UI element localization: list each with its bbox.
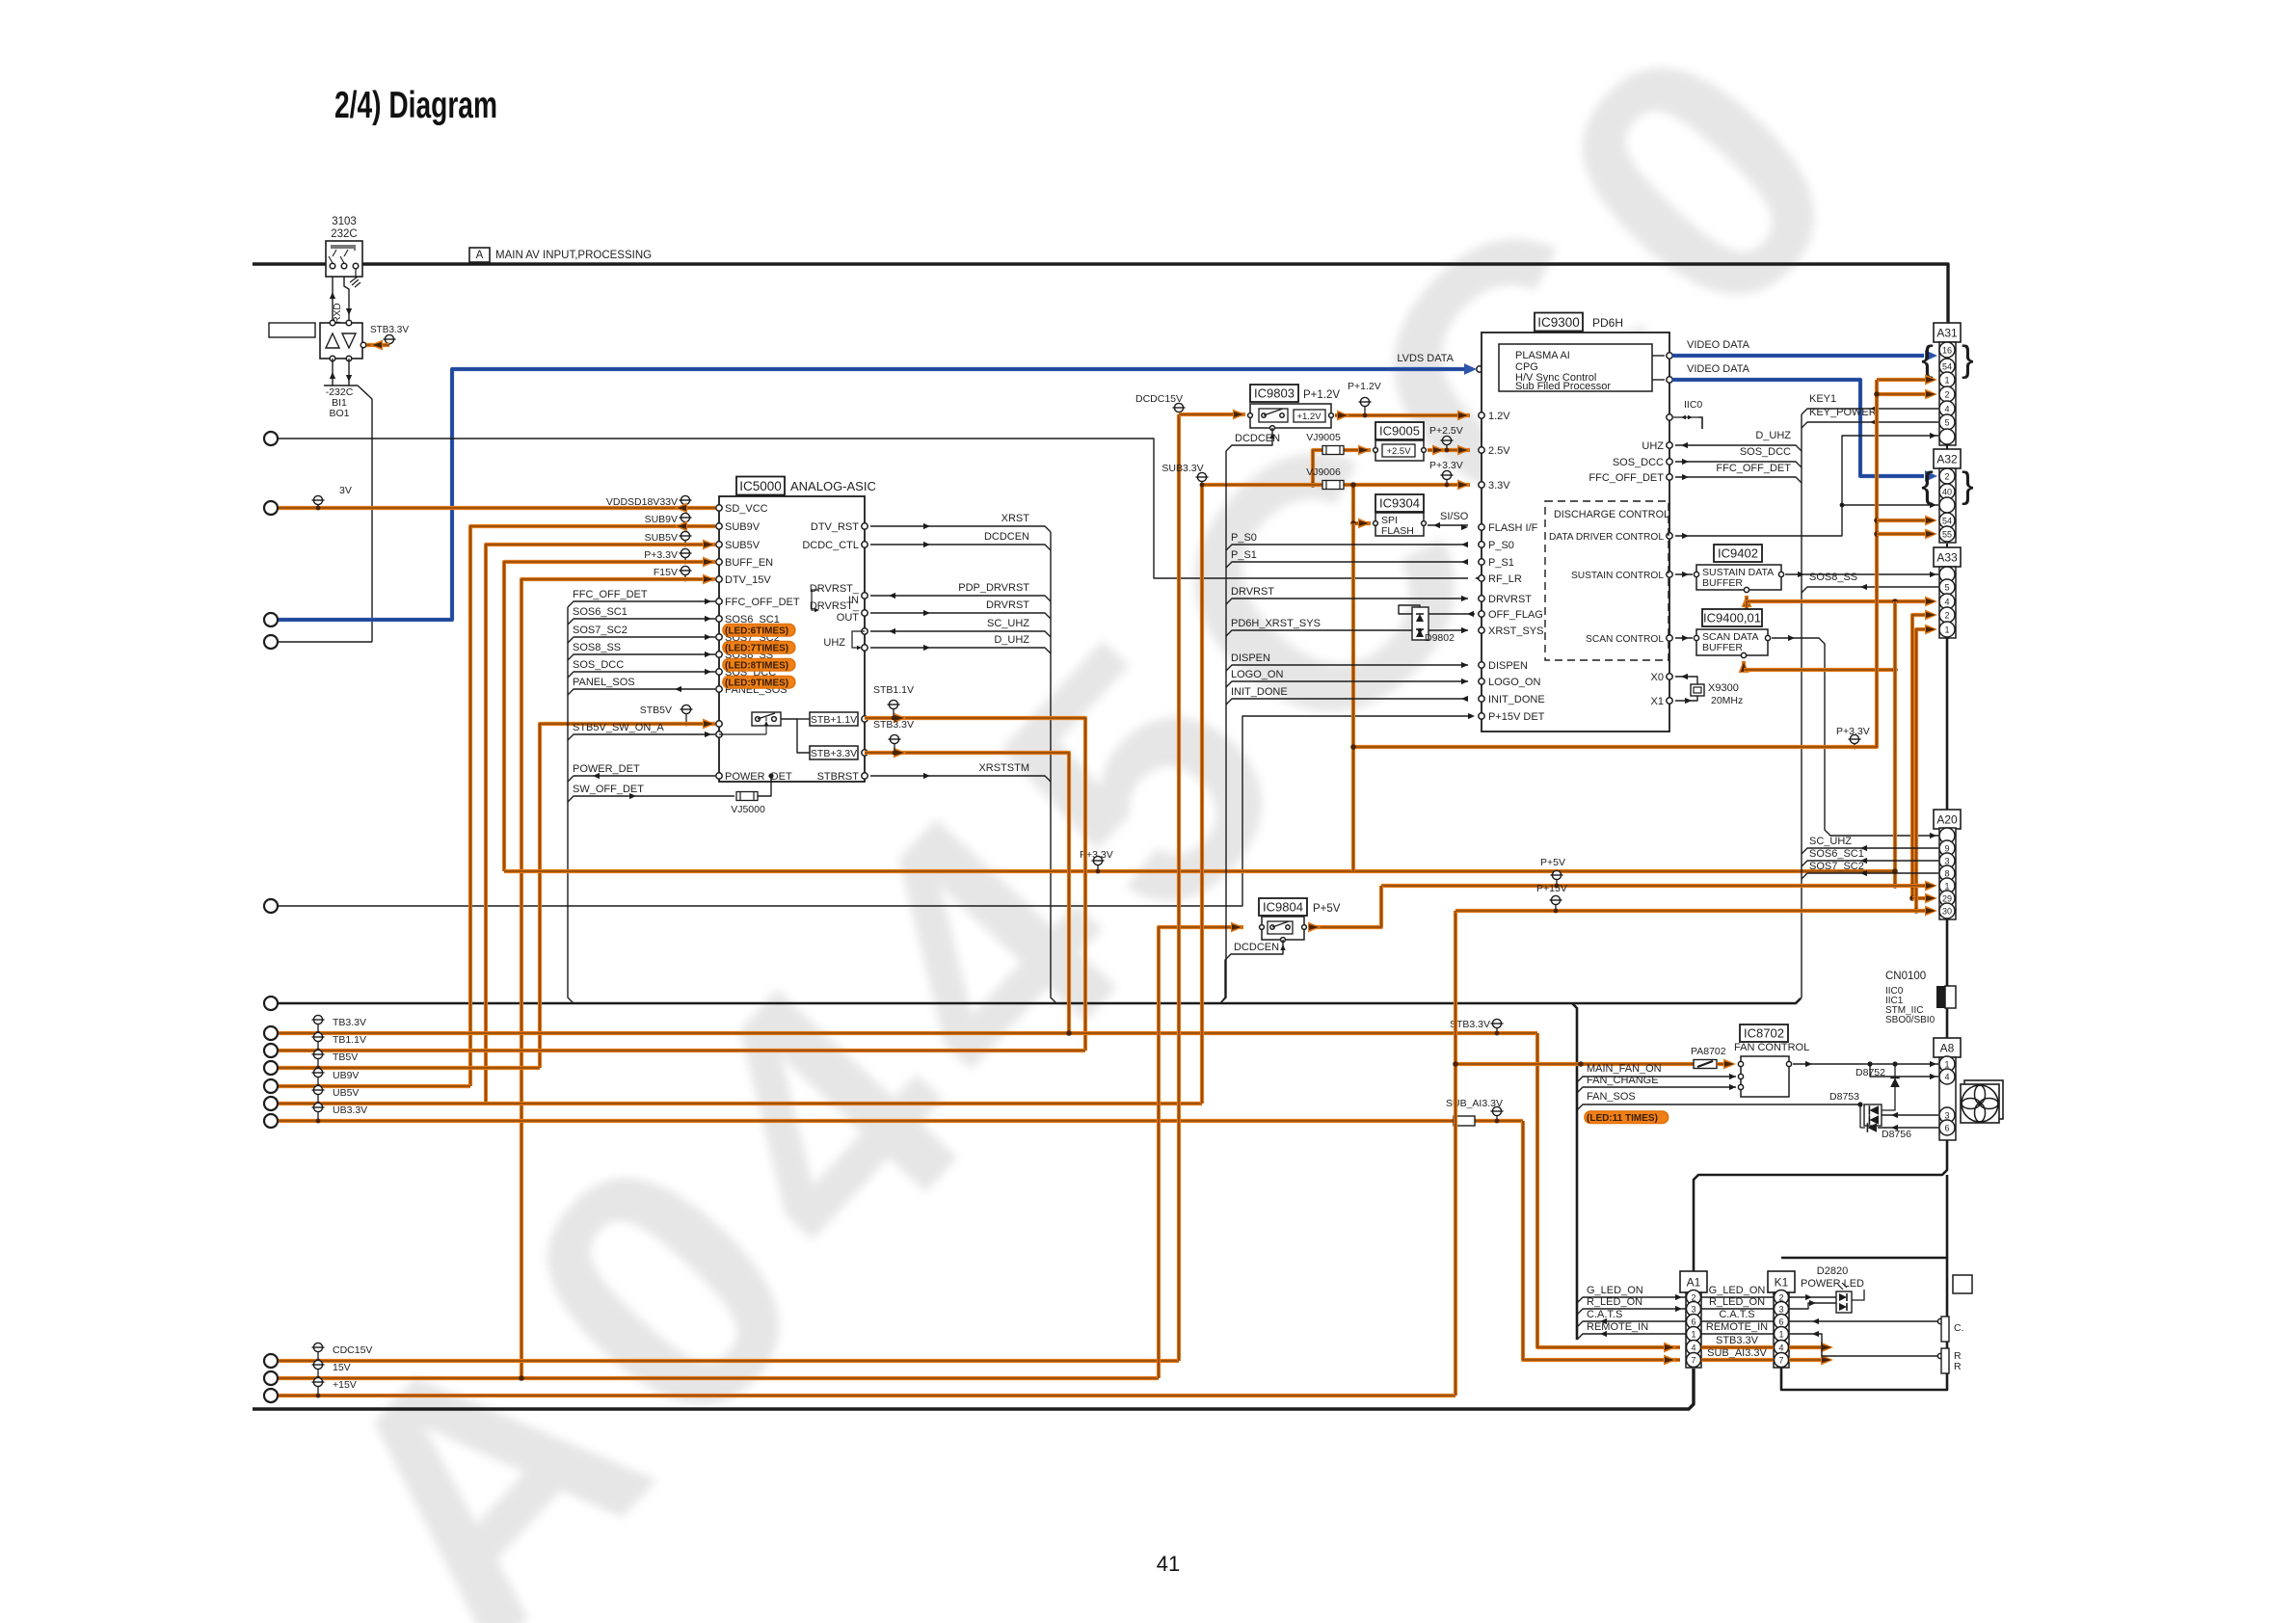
wire LOGO_ON <box>1226 681 1468 687</box>
wire SOS6_SC1 <box>568 619 715 625</box>
IC9300 pin P_S0 <box>1479 542 1484 547</box>
A20 pin 1 <box>1939 878 1955 893</box>
wire DRVRST <box>870 613 1051 619</box>
svg-text:STB3.3V: STB3.3V <box>370 325 409 335</box>
svg-text:3: 3 <box>1691 1305 1695 1315</box>
svg-text:5: 5 <box>1944 418 1949 428</box>
terminal y=1430 <box>264 1371 278 1385</box>
svg-text:1.2V: 1.2V <box>1488 411 1510 422</box>
svg-text:VJ5000: VJ5000 <box>731 804 765 815</box>
svg-text:30: 30 <box>1942 907 1952 917</box>
svg-text:PLASMA AI: PLASMA AI <box>1515 350 1570 361</box>
A8 pin 6 <box>1939 1120 1955 1135</box>
svg-text:(LED:11 TIMES): (LED:11 TIMES) <box>1587 1113 1658 1124</box>
A32 pin 40 <box>1939 484 1955 499</box>
resistor C. <box>1789 1320 1937 1322</box>
terminal y=1412 <box>264 1354 278 1368</box>
IC9300 pin LOGO_ON <box>1479 678 1484 684</box>
wire orange into A32 55 <box>1877 532 1925 536</box>
wire SOS_DCC <box>568 672 715 678</box>
wire DATA DRIVER CONTROL to A31/A32 nc pins <box>1675 436 1938 536</box>
wire RF_LR from terminal <box>279 439 1468 578</box>
wire A8 to A1 link <box>1694 1140 1947 1271</box>
svg-text:6: 6 <box>1944 1124 1949 1133</box>
wire A8 pin3 <box>1882 1114 1938 1116</box>
wire sustain out to A33 <box>1785 573 1938 575</box>
terminal y=1448 <box>264 1389 278 1402</box>
IC5000 pin STB5V <box>716 721 722 727</box>
svg-text:5: 5 <box>1944 583 1949 593</box>
svg-text:SOS_DCC: SOS_DCC <box>1613 457 1664 468</box>
svg-text:A1: A1 <box>1687 1276 1701 1290</box>
wire BUFF_EN <box>504 562 715 871</box>
svg-text:X9300: X9300 <box>1708 682 1739 694</box>
svg-text:UHZ: UHZ <box>823 637 845 649</box>
wire STB5V <box>540 724 715 1068</box>
svg-text:7: 7 <box>1778 1356 1783 1366</box>
svg-text:}: } <box>1962 339 1974 380</box>
svg-text:DISCHARGE CONTROL: DISCHARGE CONTROL <box>1554 509 1669 520</box>
svg-text:UB9V: UB9V <box>333 1070 359 1081</box>
svg-text:DTV_15V: DTV_15V <box>725 574 771 586</box>
IC5000 pin BUFF_EN <box>716 559 722 565</box>
A33 pin 4 <box>1939 594 1955 609</box>
svg-text:D_UHZ: D_UHZ <box>1755 430 1791 441</box>
svg-text:D2820: D2820 <box>1817 1265 1848 1277</box>
svg-text:P+1.2V: P+1.2V <box>1303 389 1340 401</box>
wire XRSTSTM <box>870 776 1051 782</box>
diode D9802 <box>1399 605 1475 614</box>
wire STB5V_SW_ON_A <box>568 734 715 740</box>
A1 pin 7 <box>1687 1353 1701 1368</box>
svg-text:SC_UHZ: SC_UHZ <box>1809 836 1852 847</box>
svg-text:BUFFER: BUFFER <box>1702 642 1743 653</box>
wire orange into A32 54 <box>1877 519 1925 522</box>
wire XRST_SYS <box>1461 627 1468 633</box>
K1 pin 4 <box>1775 1341 1789 1355</box>
IC5000 right pin y=672 <box>862 645 868 651</box>
wire SOS6_SC1 <box>1802 861 1938 866</box>
A1 pin 4 <box>1687 1341 1701 1355</box>
empty label box <box>269 323 315 337</box>
A33 pin nc <box>1939 567 1955 582</box>
wire D_UHZ <box>870 648 1051 653</box>
regulator IC9803 <box>1250 385 1298 402</box>
wire MAIN_FAN_ON <box>1577 1077 1736 1082</box>
svg-text:SOS8_SS: SOS8_SS <box>1809 572 1857 583</box>
IC9300 pin P+15V DET <box>1479 713 1484 719</box>
wire SOS7_SC2 <box>568 637 715 643</box>
wire DCDCEN <box>870 545 1051 550</box>
svg-text:DRVRST: DRVRST <box>1231 586 1274 598</box>
wire SOS7_SC2 <box>1802 873 1938 879</box>
svg-text:SUB5V: SUB5V <box>725 540 761 551</box>
svg-text:R: R <box>1954 1361 1962 1372</box>
terminal y=940 <box>264 899 278 913</box>
svg-text:DCDCEN: DCDCEN <box>1235 433 1280 444</box>
svg-text:PA8702: PA8702 <box>1691 1046 1726 1057</box>
svg-text:REMOTE_IN: REMOTE_IN <box>1587 1321 1648 1333</box>
svg-text:SOS7_SC2: SOS7_SC2 <box>573 625 627 636</box>
fan symbol <box>1964 1080 2003 1119</box>
svg-text:FAN_SOS: FAN_SOS <box>1587 1091 1636 1103</box>
svg-text:IC9304: IC9304 <box>1379 496 1420 511</box>
svg-text:DCDCEN: DCDCEN <box>984 531 1029 543</box>
svg-text:A33: A33 <box>1936 551 1958 565</box>
svg-text:D_UHZ: D_UHZ <box>994 634 1029 646</box>
svg-text:STB5V: STB5V <box>640 705 672 716</box>
wire DCDC15V to IC9803 <box>1179 412 1245 416</box>
IC5000 pin SUB5V <box>716 542 722 547</box>
svg-text:DCDCEN: DCDCEN <box>1234 942 1279 953</box>
wire mid board boundary <box>271 998 1801 1003</box>
wire buffer outputs down <box>332 359 334 386</box>
terminal y=455 <box>264 432 278 445</box>
svg-text:SUSTAIN CONTROL: SUSTAIN CONTROL <box>1571 571 1664 581</box>
A32 pin 55 <box>1939 526 1955 542</box>
wire 3.3V row <box>1202 483 1470 487</box>
wire SC_UHZ <box>870 631 1051 637</box>
wire K1 pin3 to LED <box>1789 1303 1836 1309</box>
wire KEY1 <box>1802 409 1938 414</box>
wire board branch down to A1 bundle <box>1572 1003 1577 1340</box>
svg-text:6: 6 <box>1691 1317 1695 1327</box>
wire XRST <box>870 526 1051 532</box>
svg-text:CDC15V: CDC15V <box>333 1344 372 1356</box>
IC9300 pin FLASH I/F <box>1479 524 1484 530</box>
wire 15V riser to IC9804 feed <box>1159 927 1243 1378</box>
IC5000 right pin y=655 <box>862 628 868 634</box>
wire bottom bus <box>253 1369 1694 1409</box>
wire INIT_DONE <box>1226 699 1468 705</box>
wire K1 out orange 7 <box>1789 1358 1822 1362</box>
A31 pin 1 <box>1939 372 1955 387</box>
svg-text:FLASH I/F: FLASH I/F <box>1488 522 1538 534</box>
wire FAN_SOS <box>1577 1104 1860 1110</box>
wire P+3.3V rail <box>504 869 1895 873</box>
flash IC9304 <box>1375 494 1424 512</box>
A20 pin 8 <box>1939 865 1955 881</box>
svg-text:3V: 3V <box>339 485 352 496</box>
wire connector links <box>1946 445 1948 449</box>
A1 pin 6 <box>1687 1315 1701 1329</box>
svg-text:DRVRST: DRVRST <box>986 599 1029 611</box>
PLASMA AI sub block <box>1499 344 1652 391</box>
IC5000 pin SOS7_SC2 <box>716 634 722 640</box>
K1 pin 3 <box>1775 1302 1789 1317</box>
svg-text:SOS_DCC: SOS_DCC <box>573 659 624 671</box>
svg-text:3: 3 <box>1778 1305 1783 1315</box>
wire K1 out orange 4 <box>1789 1345 1822 1349</box>
svg-text:P+5V: P+5V <box>1540 857 1565 868</box>
wire P+15V to fan area <box>1455 1062 1694 1066</box>
svg-text:1: 1 <box>1944 376 1949 386</box>
terminal y=1127 <box>264 1079 278 1093</box>
wire 232C down-left <box>332 277 334 323</box>
wire +15V row <box>279 1394 1455 1397</box>
svg-text:X1: X1 <box>1651 696 1664 707</box>
svg-text:A32: A32 <box>1936 453 1958 466</box>
svg-text:+1.2V: +1.2V <box>1296 412 1322 422</box>
A31 pin nc <box>1939 429 1955 444</box>
svg-text:DATA DRIVER CONTROL: DATA DRIVER CONTROL <box>1549 532 1664 543</box>
svg-text:DRVRST_: DRVRST_ <box>810 583 860 595</box>
wire UB3.3V riser to SUB_AI3.3V <box>1523 1121 1680 1360</box>
svg-text:UHZ: UHZ <box>1642 440 1664 452</box>
svg-text:P_S0: P_S0 <box>1231 532 1257 544</box>
wire orange into A20 pin29 <box>1912 896 1925 900</box>
node A MAIN AV INPUT,PROCESSING <box>469 248 490 262</box>
svg-text:IC5000: IC5000 <box>739 479 782 493</box>
svg-text:IC9005: IC9005 <box>1379 424 1420 439</box>
IC9300 pin 2.5V <box>1479 447 1484 453</box>
svg-text:R_LED_ON: R_LED_ON <box>1709 1296 1765 1308</box>
svg-text:FFC_OFF_DET: FFC_OFF_DET <box>1716 463 1791 474</box>
terminal y=666 <box>264 635 278 649</box>
wire REMOTE_IN A1-K1 <box>1701 1333 1774 1335</box>
svg-text:16: 16 <box>1942 346 1952 356</box>
wire orange v to P5 rail <box>1893 601 1897 886</box>
svg-text:IC9402: IC9402 <box>1718 546 1758 561</box>
svg-text:VJ9006: VJ9006 <box>1306 466 1341 478</box>
A1 pin 1 <box>1687 1327 1701 1342</box>
terminal y=643 <box>264 613 278 626</box>
wire P_S0 <box>1226 545 1468 550</box>
svg-text:INIT_DONE: INIT_DONE <box>1488 694 1545 705</box>
wire TB1.1V row <box>279 1049 1085 1052</box>
wire UB5V row <box>279 1102 1202 1105</box>
wire 2.5V feed <box>1313 450 1371 485</box>
svg-text:POWER_DET: POWER_DET <box>725 771 792 783</box>
crystal X9300 <box>1675 677 1697 684</box>
svg-text:40: 40 <box>1942 488 1952 497</box>
svg-text:BUFFER: BUFFER <box>1702 577 1743 589</box>
orange wires into A31 pins 1,2 <box>1877 378 1925 382</box>
A20 pin nc <box>1939 828 1955 843</box>
buffer IC9400,01 <box>1702 609 1762 626</box>
wire 15V row <box>279 1376 1159 1380</box>
wire UB9V row <box>279 1084 470 1088</box>
wire FFC_OFF_DET <box>568 601 715 607</box>
svg-text:{: { <box>1921 339 1934 380</box>
A20 pin 9 <box>1939 840 1955 856</box>
svg-text:54: 54 <box>1942 362 1952 372</box>
terminal y=1145 <box>264 1097 278 1110</box>
wire TB5V row <box>279 1066 540 1070</box>
svg-text:STB3.3V: STB3.3V <box>873 719 914 731</box>
svg-text:D9802: D9802 <box>1425 632 1455 644</box>
discharge control dashed box <box>1545 501 1669 660</box>
svg-text:DISPEN: DISPEN <box>1488 660 1528 672</box>
svg-text:(LED:6TIMES): (LED:6TIMES) <box>725 626 788 637</box>
ground <box>350 269 360 287</box>
wire PD6H_XRST_SYS <box>1226 630 1468 636</box>
wire STB+1.1V output to TB1.1V <box>865 718 1085 1051</box>
IC9300 right pin y=495 <box>1667 474 1672 480</box>
wire REMOTE_IN left <box>1577 1334 1686 1340</box>
wire PANEL_SOS <box>568 689 715 695</box>
svg-text:DCDC15V: DCDC15V <box>1135 393 1183 405</box>
K1 pin 6 <box>1775 1315 1789 1329</box>
K1 module box <box>1781 1258 1947 1390</box>
resistor on SUB_AI3.3V row <box>1454 1116 1475 1126</box>
op-amp IC9300 PD6H block <box>1535 313 1583 332</box>
svg-text:PANEL_SOS: PANEL_SOS <box>573 677 635 688</box>
IC5000 right pin y=805 <box>862 773 868 779</box>
svg-text:P+2.5V: P+2.5V <box>1429 425 1463 437</box>
wire SUSTAIN CONTROL <box>1675 573 1693 575</box>
terminal y=1108 <box>264 1061 278 1075</box>
terminal y=1072 <box>264 1026 278 1040</box>
svg-text:XRST_SYS: XRST_SYS <box>1488 625 1543 637</box>
connector A1 <box>1680 1271 1707 1292</box>
svg-text:2.5V: 2.5V <box>1488 445 1510 457</box>
wire K1 pin2 to LED <box>1789 1296 1836 1298</box>
wire P+5V rail to A20 pin1 <box>1381 884 1925 888</box>
svg-text:P+15V DET: P+15V DET <box>1488 711 1545 723</box>
connector K1 <box>1768 1271 1795 1292</box>
svg-text:BO1: BO1 <box>329 408 349 419</box>
svg-text:OFF_FLAG: OFF_FLAG <box>1488 609 1543 621</box>
wire G_LED_ON left <box>1577 1297 1686 1303</box>
K1 pin 1 <box>1775 1327 1789 1342</box>
svg-text:P+3.3V: P+3.3V <box>1429 460 1463 471</box>
A32 pin nc <box>1939 497 1955 513</box>
svg-text:G_LED_ON: G_LED_ON <box>1587 1285 1643 1296</box>
svg-text:LVDS DATA: LVDS DATA <box>1397 353 1454 364</box>
LED11 tag <box>1585 1111 1669 1124</box>
wire IC9804 out to P+5V rail <box>1308 886 1381 927</box>
svg-text:PDP_DRVRST: PDP_DRVRST <box>958 582 1029 594</box>
IC9300 pin RF_LR <box>1479 575 1484 581</box>
IC9300 pin 3.3V <box>1479 482 1484 488</box>
IC5000 pin DTV_15V <box>716 576 722 582</box>
wire SOS8_SS <box>1802 587 1938 593</box>
wire PDP_DRVRST <box>870 596 1051 601</box>
RS232 buffer U <box>320 323 362 359</box>
svg-text:{: { <box>1921 466 1934 506</box>
svg-text:UB5V: UB5V <box>333 1087 359 1099</box>
connector A20 <box>1934 810 1961 829</box>
svg-text:4: 4 <box>1778 1344 1783 1353</box>
IC5000 pin SOS6_SC1 <box>716 616 722 622</box>
A31 pin 4 <box>1939 401 1955 416</box>
svg-text:DCDC_CTL: DCDC_CTL <box>802 540 859 551</box>
svg-text:IC9804: IC9804 <box>1263 900 1303 915</box>
svg-text:XRST: XRST <box>1001 513 1030 524</box>
wire A8 link down to K1 box <box>1946 1175 1949 1258</box>
svg-text:2: 2 <box>1944 611 1949 621</box>
wire LVDS DATA blue <box>279 369 1465 620</box>
wire DRVRST <box>1226 599 1468 604</box>
svg-text:}: } <box>1962 466 1974 506</box>
IC9300 right pin y=369 <box>1667 353 1672 359</box>
wire FAN_CHANGE <box>1577 1087 1736 1093</box>
svg-text:3: 3 <box>1944 857 1949 866</box>
svg-text:Sub Filed Processor: Sub Filed Processor <box>1515 381 1611 392</box>
wire long P3.3 drop <box>1351 523 1355 871</box>
svg-text:SW_OFF_DET: SW_OFF_DET <box>573 784 644 795</box>
wire STB+3.3V output to TB3.3V row <box>865 753 1069 1033</box>
A32 pin 54 <box>1939 513 1955 528</box>
IC5000 right pin y=546 <box>862 523 868 529</box>
svg-text:2: 2 <box>1944 472 1949 482</box>
IC5000 right pin y=618 <box>862 593 868 599</box>
K1 pin 7 <box>1775 1353 1789 1368</box>
A33 pin 1 <box>1939 622 1955 637</box>
IC5000 right pin y=636 <box>862 610 868 616</box>
wire scan out down to A20 <box>1772 638 1938 836</box>
svg-text:P+1.2V: P+1.2V <box>1348 381 1381 392</box>
A31 pin 5 <box>1939 414 1955 430</box>
svg-text:STB1.1V: STB1.1V <box>873 684 914 696</box>
svg-text:INIT_DONE: INIT_DONE <box>1231 686 1288 698</box>
wire TB3.3V row <box>279 1031 1537 1035</box>
svg-text:1: 1 <box>1778 1330 1783 1340</box>
svg-text:1: 1 <box>1944 882 1949 891</box>
svg-text:FFC_OFF_DET: FFC_OFF_DET <box>1589 472 1664 484</box>
svg-text:VJ9005: VJ9005 <box>1306 432 1341 443</box>
svg-text:TB3.3V: TB3.3V <box>333 1017 366 1028</box>
connector A32 <box>1934 449 1961 468</box>
small box top right <box>1953 1275 1972 1293</box>
K1 pin 2 <box>1775 1290 1789 1305</box>
svg-text:A: A <box>476 250 484 261</box>
svg-text:BUFF_EN: BUFF_EN <box>725 557 773 569</box>
A33 pin 2 <box>1939 607 1955 623</box>
svg-text:STBRST: STBRST <box>817 771 860 783</box>
IC9300 pin DISPEN <box>1479 662 1484 668</box>
svg-text:F15V: F15V <box>654 567 678 578</box>
IC5000 right pin y=565 <box>862 542 868 547</box>
A31 pin 2 <box>1939 386 1955 402</box>
IC5000 pin SD_VCC <box>716 505 722 511</box>
svg-text:DRVRST: DRVRST <box>1488 594 1532 605</box>
wire DCDCEN to IC9803 <box>1226 428 1272 451</box>
svg-text:TB5V: TB5V <box>333 1051 358 1063</box>
svg-text:SUB5V: SUB5V <box>645 532 678 544</box>
svg-text:PD6H_XRST_SYS: PD6H_XRST_SYS <box>1231 618 1321 629</box>
IC9300 right pin y=394 <box>1667 377 1672 383</box>
svg-text:UB3.3V: UB3.3V <box>333 1104 367 1116</box>
wire VIDEO DATA 1 blue <box>1652 355 1665 357</box>
svg-text:POWER LED: POWER LED <box>1801 1278 1864 1290</box>
wire SUB9V <box>470 526 715 1086</box>
switch in IC5000 <box>752 712 781 726</box>
svg-text:OUT: OUT <box>837 612 860 624</box>
svg-text:FAN CONTROL: FAN CONTROL <box>1734 1042 1809 1053</box>
IC5000 pin STB5V_SW_ON_A <box>716 732 722 737</box>
svg-text:R_LED_ON: R_LED_ON <box>1587 1296 1642 1308</box>
IC9300 pin INIT_DONE <box>1479 696 1484 702</box>
wire FFC_OFF_DET into bundle <box>1675 477 1802 483</box>
IC9300 right pin y=556 <box>1667 533 1672 539</box>
svg-text:KEY_POWER: KEY_POWER <box>1809 407 1877 418</box>
svg-text:4: 4 <box>1944 598 1949 607</box>
svg-text:SUB9V: SUB9V <box>725 521 761 533</box>
svg-text:+15V: +15V <box>333 1379 357 1391</box>
wire DTV_15V <box>521 579 715 1378</box>
svg-text:SOS7_SC2: SOS7_SC2 <box>1809 861 1864 872</box>
IC9300 right pin y=702 <box>1667 674 1672 679</box>
svg-text:(LED:9TIMES): (LED:9TIMES) <box>725 678 788 689</box>
wire SD_VCC <box>279 506 715 510</box>
wire C.A.T.S A1-K1 <box>1701 1320 1774 1322</box>
wire STB5V_SW_ON_A to switch <box>719 733 766 735</box>
svg-text:2/4) Diagram: 2/4) Diagram <box>334 85 497 126</box>
wire +15V riser P+15V <box>1454 911 1457 1396</box>
svg-text:D8753: D8753 <box>1829 1091 1859 1103</box>
